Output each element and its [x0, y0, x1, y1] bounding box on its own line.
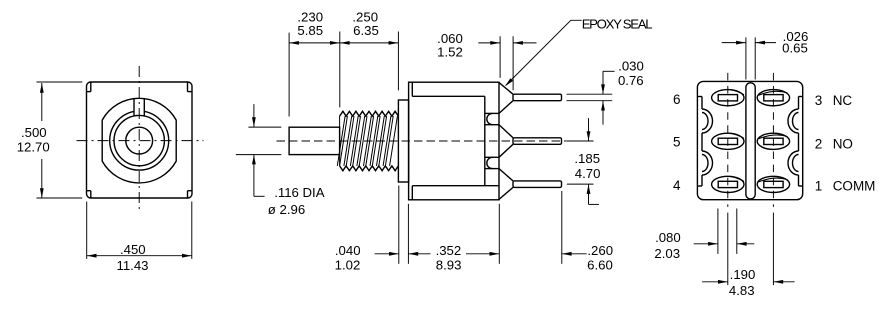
- epoxy seal text: [582, 17, 653, 32]
- bottom view terminal 3 pad: [757, 90, 789, 106]
- front view plunger circle: [126, 127, 153, 154]
- front view vertical centerline: [138, 66, 140, 212]
- dimension text .450: [120, 242, 146, 257]
- dimension .500 line: [40, 83, 44, 198]
- dimension text 1.52: [437, 45, 463, 60]
- dimension text .116 DIA: [274, 185, 325, 200]
- front view corner notch top-right: [188, 82, 192, 91]
- front view horizontal centerline: [77, 140, 204, 142]
- side view terminal 2 cone: [499, 125, 513, 158]
- side view thread profile top: [340, 111, 399, 116]
- dimension text 0.65: [782, 41, 808, 56]
- dimension text 11.43: [116, 258, 148, 273]
- dimension .260 arrow: [562, 252, 587, 256]
- svg-text:0.65: 0.65: [782, 41, 808, 56]
- side view thread profile bottom: [340, 166, 399, 171]
- bottom view terminal 2 pad: [757, 133, 789, 149]
- side view epoxy meniscus arc upper: [487, 113, 493, 124]
- dimension .060 arrows: [478, 41, 536, 45]
- svg-text:4: 4: [673, 178, 681, 193]
- svg-text:.352: .352: [436, 243, 462, 258]
- bottom view body outline: [697, 81, 802, 199]
- bottom view terminal 3 slot: [764, 95, 783, 101]
- dimension text 4.83: [729, 283, 755, 298]
- bottom view terminal 5 crimp arc: [730, 133, 744, 138]
- label terminal 1 COMM: [815, 179, 876, 194]
- bottom view right column centerline: [772, 73, 774, 285]
- dimension .080 arrows: [694, 242, 755, 246]
- side view epoxy meniscus arc lower: [487, 157, 493, 168]
- svg-text:6.60: 6.60: [587, 257, 613, 272]
- side view horizontal centerline: [277, 140, 567, 142]
- dimension text 6.60: [587, 257, 613, 272]
- svg-text:.450: .450: [120, 242, 146, 257]
- front view outer ring circle: [110, 111, 169, 170]
- bottom view terminal 6 slot: [718, 95, 737, 101]
- dimension text .190: [730, 267, 756, 282]
- front view corner notch bottom-right: [188, 191, 192, 198]
- label terminal 5: [673, 135, 681, 150]
- dimension text 5.85: [297, 23, 323, 38]
- svg-text:ø 2.96: ø 2.96: [268, 202, 305, 217]
- bottom view terminal 6 crimp arc: [730, 90, 744, 95]
- dimension text 4.70: [575, 166, 601, 181]
- dimension .500 extension lines: [37, 82, 83, 198]
- dimension .450 extension lines: [87, 202, 192, 259]
- bottom view terminal 1 crimp arc: [759, 178, 788, 182]
- side view terminal 1 cone: [499, 169, 513, 200]
- front view bushing circle with flats: [102, 98, 176, 183]
- dimension text .352: [436, 243, 462, 258]
- svg-text:NO: NO: [833, 136, 853, 151]
- side view terminal 3 pin: [513, 94, 562, 101]
- bottom view right edge steps: [799, 97, 803, 187]
- front view keyway slot: [134, 99, 145, 116]
- side view terminal 2 pin: [513, 138, 562, 145]
- dimension .230 .250 extension lines: [289, 32, 398, 117]
- dimension .040 arrow: [375, 252, 399, 256]
- svg-text:2: 2: [815, 136, 823, 151]
- dimension bottom extension lines: [399, 186, 562, 264]
- svg-text:8.93: 8.93: [436, 257, 462, 272]
- label terminal 4: [673, 178, 681, 193]
- dimension text .260: [587, 243, 613, 258]
- svg-text:.260: .260: [587, 243, 613, 258]
- dimension .060 extension lines: [500, 36, 513, 90]
- svg-text:5.85: 5.85: [297, 23, 323, 38]
- side view plunger: [289, 127, 340, 154]
- bottom view terminal 2 slot: [764, 138, 783, 144]
- dimension text .040: [335, 243, 361, 258]
- label terminal 6: [673, 92, 681, 107]
- bottom view terminal 1 pad: [757, 176, 789, 192]
- side view thread left boundary: [339, 116, 341, 166]
- bottom view terminal 4 crimp arc: [730, 176, 744, 181]
- svg-text:11.43: 11.43: [116, 258, 148, 273]
- front view corner notch bottom-left: [87, 191, 91, 198]
- svg-text:.185: .185: [574, 151, 600, 166]
- svg-text:6: 6: [673, 92, 681, 107]
- bottom view terminal 1 slot: [764, 181, 783, 187]
- side view bushing collar: [398, 100, 408, 182]
- svg-text:.116 DIA: .116 DIA: [274, 185, 325, 200]
- dimension .116 arrows: [252, 104, 265, 196]
- side view body top lip: [412, 82, 485, 96]
- bottom view terminal 6 pad: [712, 90, 744, 106]
- bottom view left notch upper: [702, 109, 713, 133]
- dimension .185 arrows: [587, 118, 599, 204]
- epoxy seal leader: [505, 20, 582, 86]
- dimension text .230: [297, 10, 323, 25]
- side view body bottom lip: [412, 186, 499, 200]
- dimension text 2.03: [654, 246, 680, 261]
- dimension .230 .250 line: [289, 41, 398, 45]
- svg-text:.030: .030: [618, 59, 644, 74]
- bottom view terminal 2 crimp arc: [759, 135, 788, 139]
- dimension .030 extension lines: [567, 94, 613, 101]
- svg-text:0.76: 0.76: [618, 73, 644, 88]
- svg-text:4.83: 4.83: [729, 283, 755, 298]
- dimension text .250: [352, 10, 378, 25]
- dimension text .500: [21, 125, 47, 140]
- dimension .030 arrows: [601, 71, 615, 124]
- bottom view terminal 3 crimp arc: [759, 91, 788, 95]
- dimension text 0.76: [618, 73, 644, 88]
- bottom view left column centerline: [727, 73, 729, 285]
- dimension text 1.02: [335, 257, 361, 272]
- dimension text 12.70: [17, 140, 50, 155]
- dimension text .026: [783, 29, 809, 44]
- bottom view center slot: [746, 83, 755, 199]
- side view terminal 3 cone: [499, 83, 513, 114]
- bottom view terminal 4 slot: [718, 181, 737, 187]
- bottom view left inner edge: [701, 97, 703, 187]
- dimension .026 extension lines: [746, 37, 755, 79]
- svg-text:.040: .040: [335, 243, 361, 258]
- svg-text:2.03: 2.03: [654, 246, 680, 261]
- bottom view left edge steps: [698, 97, 702, 187]
- svg-text:5: 5: [673, 135, 681, 150]
- bottom view right notch lower: [788, 151, 798, 175]
- svg-text:EPOXY SEAL: EPOXY SEAL: [582, 17, 653, 32]
- svg-text:6.35: 6.35: [353, 23, 379, 38]
- dimension .450 line: [87, 254, 192, 258]
- bottom view terminal 5 pad: [712, 133, 744, 149]
- side view terminal base lines: [485, 113, 499, 168]
- label terminal 3 NC: [815, 93, 853, 108]
- dimension text 6.35: [353, 23, 379, 38]
- bottom view terminal 4 pad: [712, 176, 744, 192]
- side view terminal 1 pin: [513, 181, 562, 188]
- dimension .190 arrows: [702, 280, 795, 284]
- svg-text:3: 3: [815, 93, 823, 108]
- dimension text dia 2.96: [268, 202, 305, 217]
- dimension .352 line: [408, 252, 499, 256]
- svg-text:1.52: 1.52: [437, 45, 463, 60]
- side view body outline: [409, 82, 499, 200]
- svg-text:NC: NC: [833, 93, 853, 108]
- dimension .116 extension lines: [236, 127, 281, 155]
- dimension text .060: [437, 31, 463, 46]
- dimension text 8.93: [436, 257, 462, 272]
- label terminal 2 NO: [815, 136, 853, 151]
- svg-text:COMM: COMM: [833, 179, 876, 194]
- bottom view right notch upper: [788, 109, 798, 133]
- dimension .026 arrows: [722, 41, 776, 45]
- svg-text:12.70: 12.70: [17, 140, 50, 155]
- svg-text:.190: .190: [730, 267, 756, 282]
- front view inner ring circle: [114, 115, 164, 165]
- svg-text:4.70: 4.70: [575, 166, 601, 181]
- bottom view left notch lower: [702, 151, 713, 175]
- front view corner notch top-left: [87, 82, 91, 91]
- side view terminal base edge: [484, 96, 486, 185]
- bottom view terminal 5 slot: [718, 138, 737, 144]
- side view thread flank lines: [337, 116, 397, 166]
- svg-text:.500: .500: [21, 125, 47, 140]
- svg-text:.080: .080: [655, 230, 681, 245]
- svg-text:1: 1: [815, 179, 823, 194]
- dimension text .030: [618, 59, 644, 74]
- dimension text .080: [655, 230, 681, 245]
- bottom view right inner edge: [798, 97, 800, 187]
- dimension .080 extension lines: [718, 209, 737, 254]
- dimension text .185: [574, 151, 600, 166]
- front view body outline: [87, 82, 193, 198]
- dimension .185 extension lines: [567, 141, 594, 184]
- svg-text:1.02: 1.02: [335, 257, 361, 272]
